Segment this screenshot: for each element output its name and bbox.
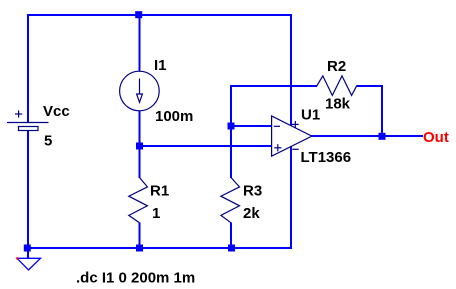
voltage source Vcc (battery symbol) [7,110,49,130]
junction bottom left [24,245,31,252]
op-amp U1 inverting input mark [274,125,280,127]
op-amp U1 V- pin mark [292,148,298,150]
ground red pin artifact [16,257,18,259]
wire R1 bottom stub [139,223,141,250]
svg-text:Out: Out [423,129,449,146]
svg-text:R3: R3 [243,183,262,200]
svg-text:LT1366: LT1366 [301,149,352,166]
wire bottom rail [27,247,293,249]
wire R2 left [230,85,317,87]
resistor R1 zigzag [129,178,148,223]
op-amp U1 V+ pin mark [292,121,299,128]
svg-text:2k: 2k [243,205,260,222]
junction R3 bottom [228,245,235,252]
wire R2 drop to output [381,85,383,137]
svg-text:100m: 100m [155,108,193,125]
wire V- supply [290,145,292,249]
wire feedback riser [230,85,232,127]
wire inverting input [230,125,272,127]
current source I1 circle [120,71,160,111]
wire V+ supply [290,14,292,127]
junction top rail / I1 [135,11,142,18]
svg-text:.dc I1 0 200m 1m: .dc I1 0 200m 1m [76,270,195,287]
wire left rail lower [27,131,29,249]
wire middle to noninverting input [139,145,272,147]
op-amp U1 triangle [272,116,312,156]
wire left rail upper [27,14,29,122]
wire R3 bottom stub [230,223,232,250]
svg-text:5: 5 [44,133,52,150]
svg-text:1: 1 [152,205,160,222]
wire I1 column [139,14,141,146]
wire R3 top stub [230,125,232,178]
op-amp U1 noninverting input mark [274,144,281,151]
svg-text:U1: U1 [301,107,320,124]
resistor R3 zigzag [221,178,240,223]
wire R1 top stub [139,145,141,178]
wire R2 right [356,85,383,87]
current source I1 arrow [137,79,143,103]
svg-text:Vcc: Vcc [43,103,70,120]
ground symbol [17,258,41,270]
svg-text:R2: R2 [327,58,346,75]
junction mid node [136,143,143,150]
junction output node [379,133,386,140]
svg-text:18k: 18k [325,96,351,113]
junction inverting node [228,123,235,130]
junction R1 bottom [136,245,143,252]
wire ground stub [27,247,29,259]
svg-text:R1: R1 [150,183,169,200]
wire top rail [27,14,292,16]
resistor R2 zigzag [317,76,357,96]
svg-text:I1: I1 [154,57,167,74]
wire output [310,135,423,137]
